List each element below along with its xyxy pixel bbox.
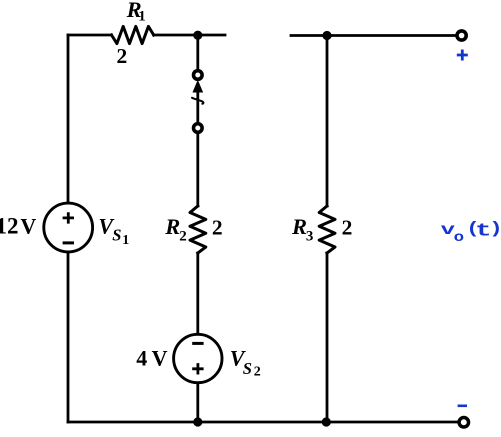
voltage source VS2 — [174, 334, 222, 382]
label vo(t) output — [441, 220, 501, 246]
node C junction dot — [193, 417, 202, 426]
wire bottom rail — [68, 421, 458, 424]
svg-text:): ) — [489, 220, 501, 239]
wire left rail top — [67, 35, 70, 204]
node A junction dot — [193, 31, 202, 40]
svg-text:4: 4 — [136, 346, 147, 371]
wire switch stem middle — [196, 91, 199, 122]
svg-text:1: 1 — [122, 233, 129, 248]
node B junction dot — [322, 31, 331, 40]
svg-text:R: R — [291, 214, 307, 239]
terminal minus sign — [458, 404, 467, 407]
resistor R2 — [190, 206, 206, 253]
wire R3 stem lower — [326, 253, 329, 422]
voltage source VS1 — [44, 203, 93, 252]
terminal plus sign — [457, 50, 468, 61]
switch arrow — [193, 81, 202, 92]
wire R3 stem upper — [326, 36, 329, 207]
wire switch stem upper — [196, 35, 199, 68]
svg-text:12: 12 — [0, 214, 19, 239]
svg-text:V: V — [20, 214, 36, 239]
switch S contact bottom — [194, 124, 203, 133]
resistor R1 — [112, 26, 154, 43]
svg-text:o: o — [454, 230, 464, 246]
node D junction dot — [322, 417, 331, 426]
wire left rail bottom — [67, 252, 70, 422]
wire VS2 to bottom — [196, 383, 199, 422]
svg-text:2: 2 — [179, 228, 187, 244]
svg-text:1: 1 — [138, 9, 146, 25]
svg-text:2: 2 — [254, 365, 261, 380]
svg-text:2: 2 — [212, 215, 223, 239]
wire R1 to node A — [154, 34, 225, 37]
svg-text:2: 2 — [342, 215, 353, 239]
wire switch to R2 — [196, 135, 199, 206]
switch S contact top — [194, 71, 203, 80]
svg-text:2: 2 — [117, 44, 128, 68]
svg-text:V: V — [152, 346, 168, 371]
terminal top-right — [457, 31, 466, 40]
svg-text:S: S — [112, 226, 121, 245]
switch blade tick — [192, 98, 203, 104]
wire top-right segment — [291, 34, 455, 37]
svg-text:R: R — [164, 214, 180, 239]
wire top-left segment — [68, 34, 112, 37]
svg-text:3: 3 — [306, 228, 314, 244]
wire R2 to VS2 — [196, 253, 199, 334]
svg-text:S: S — [243, 359, 252, 378]
terminal bottom-right — [459, 418, 469, 428]
resistor R3 — [319, 206, 335, 253]
